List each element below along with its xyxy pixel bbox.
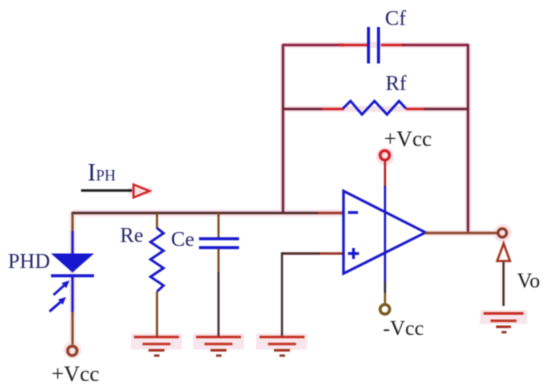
terminal -Vcc — [380, 305, 390, 315]
terminal +Vcc (photodiode) — [68, 346, 77, 355]
wire photodiode cathode lead — [71, 312, 73, 345]
wire feedback top (Cf branch) — [282, 44, 344, 46]
arrow Vo — [497, 244, 510, 262]
svg-text:Ce: Ce — [171, 227, 194, 251]
capacitor Ce — [199, 213, 239, 336]
wire -Vcc lead — [384, 293, 386, 303]
ground (non-inverting input) — [260, 337, 305, 356]
terminal +Vcc (op-amp) — [380, 151, 389, 160]
wire Vo reference — [502, 262, 504, 306]
ground (Re) — [134, 337, 179, 356]
wire +Vcc lead — [384, 160, 386, 188]
current arrow IPH — [81, 189, 132, 192]
wire output — [425, 232, 497, 234]
svg-text:PHD: PHD — [8, 249, 50, 273]
wire main horizontal (inverting input net) — [71, 212, 318, 214]
soft halos (jpeg-like glow, decorative) — [64, 44, 528, 359]
wire feedback right vertical — [467, 44, 469, 234]
svg-text:Vo: Vo — [517, 268, 540, 292]
wire non-inverting input — [282, 252, 344, 336]
wire Rf left lead (red) — [322, 108, 344, 110]
svg-text:-Vcc: -Vcc — [383, 316, 424, 340]
wire inverting input lead (red-brown) — [318, 212, 344, 214]
svg-text:Re: Re — [120, 223, 143, 247]
terminal Vo — [498, 229, 507, 238]
ground (Ce) — [196, 337, 241, 356]
wire op-amp power line (blue) — [384, 186, 386, 282]
photodiode PHD — [50, 213, 95, 312]
svg-text:+Vcc: +Vcc — [52, 361, 100, 386]
svg-text:Rf: Rf — [386, 71, 407, 95]
light arrow 1 — [54, 281, 70, 296]
wire — [424, 108, 469, 110]
wire Cf left lead (red) — [338, 44, 367, 46]
capacitor Cf — [369, 27, 379, 64]
ground (Vo) — [484, 313, 524, 332]
wire Rf right lead (red) — [406, 108, 425, 110]
wire Rf branch left — [282, 108, 323, 110]
svg-text:Cf: Cf — [385, 6, 406, 30]
op-amp U1 — [344, 191, 426, 274]
wire — [402, 44, 469, 46]
resistor Rf — [343, 101, 406, 115]
resistor Re — [151, 213, 164, 336]
wire Cf right lead (red) — [381, 44, 405, 46]
svg-text:+Vcc: +Vcc — [384, 126, 432, 151]
wire feedback left vertical — [282, 44, 284, 212]
light arrow 2 — [50, 297, 67, 312]
